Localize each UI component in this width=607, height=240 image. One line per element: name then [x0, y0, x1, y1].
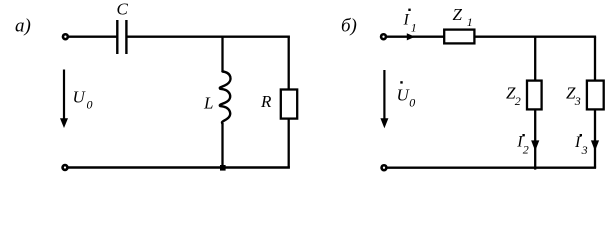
terminal bottom-left (b): [382, 165, 387, 170]
svg-text:3: 3: [574, 94, 581, 108]
wire Z1 to right corner: [475, 36, 597, 38]
wire bottom (a): [68, 166, 290, 168]
terminal top-left (b): [381, 34, 386, 39]
svg-text:2: 2: [515, 94, 521, 108]
current arrow I3: [591, 140, 599, 151]
svg-text:Z: Z: [453, 5, 463, 24]
svg-text:C: C: [117, 0, 129, 19]
wire bottom (b): [387, 166, 596, 168]
wire top-left to Z1: [387, 36, 445, 38]
svg-text:I: I: [574, 134, 581, 151]
voltage arrow U0: [63, 70, 65, 121]
junction node (a): [220, 165, 226, 171]
svg-text:б): б): [341, 16, 357, 37]
current label I1: [408, 9, 410, 11]
svg-text:а): а): [15, 16, 31, 37]
wire Z2 branch lower: [534, 109, 536, 170]
impedance Z2 body: [527, 81, 542, 110]
svg-text:3: 3: [581, 143, 588, 157]
current arrow I2: [531, 140, 539, 151]
wire Z2 branch upper: [534, 37, 536, 81]
svg-text:0: 0: [409, 96, 415, 110]
svg-text:0: 0: [87, 98, 93, 112]
svg-text:R: R: [260, 92, 272, 111]
capacitor C plates: [116, 20, 118, 54]
wire Z3 branch lower: [594, 109, 596, 168]
voltage label U0 dotted (b): [400, 81, 402, 83]
current label I2: [522, 134, 524, 136]
wire capacitor to right branch: [127, 36, 290, 38]
inductor L coil: [220, 72, 231, 124]
wire inductor branch upper: [221, 37, 223, 72]
resistor R body: [281, 90, 297, 119]
svg-text:L: L: [203, 93, 213, 112]
svg-text:1: 1: [411, 20, 417, 34]
current arrow I1: [407, 33, 415, 40]
terminal top-left (a): [63, 34, 68, 39]
voltage arrow U0 (b): [383, 70, 385, 120]
impedance Z1 body: [444, 30, 474, 44]
svg-text:I: I: [403, 12, 410, 29]
impedance Z3 body: [587, 81, 604, 110]
svg-text:2: 2: [523, 143, 529, 157]
wire Z3 branch upper: [594, 37, 596, 81]
current label I3: [580, 134, 582, 136]
wire inductor branch lower: [221, 124, 223, 168]
wire right branch (a): [288, 37, 290, 168]
svg-text:U: U: [73, 87, 87, 106]
terminal bottom-left (a): [63, 165, 68, 170]
svg-text:1: 1: [467, 15, 473, 29]
wire top-left to capacitor: [69, 36, 117, 38]
